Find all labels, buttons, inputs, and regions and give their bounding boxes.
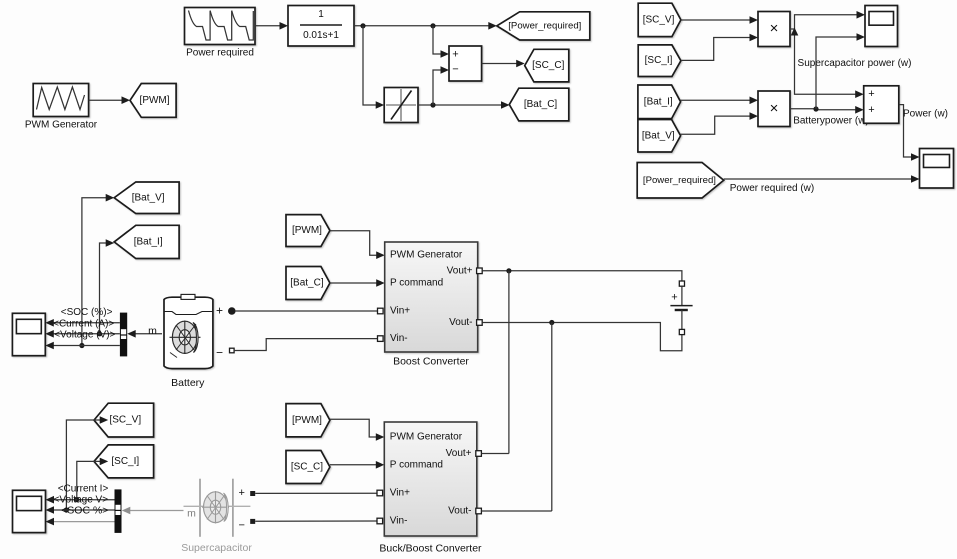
supercap minus terminal	[238, 519, 255, 532]
svg-text:Vout+: Vout+	[446, 448, 472, 459]
svg-text:+: +	[216, 304, 223, 318]
wire: saturation output to Bat_C goto	[418, 101, 510, 109]
wire: battery plus to Boost Vin+	[235, 310, 377, 312]
port: Buck/Boost Vout-	[476, 508, 482, 514]
svg-text:[SC_V]: [SC_V]	[643, 14, 675, 25]
svg-text:Vin-: Vin-	[390, 333, 408, 344]
from tag Bat_C (boost command)	[286, 267, 330, 300]
label: Power required (w)	[730, 183, 814, 194]
svg-text:Vin+: Vin+	[390, 306, 410, 317]
svg-text:[Bat_I]: [Bat_I]	[134, 236, 163, 247]
svg-text:Batterypower (w): Batterypower (w)	[793, 116, 869, 127]
svg-text:Vin-: Vin-	[390, 516, 408, 527]
svg-text:Buck/Boost Converter: Buck/Boost Converter	[379, 543, 482, 555]
goto tag Power_required	[497, 12, 590, 40]
svg-text:−: −	[216, 346, 223, 360]
svg-text:[PWM]: [PWM]	[140, 95, 170, 106]
wire: battery current signal up to Bat_I goto	[100, 239, 115, 334]
port: Buck/Boost Vin+	[377, 490, 383, 496]
svg-text:Boost Converter: Boost Converter	[393, 356, 469, 368]
scope block: battery measurements	[12, 313, 45, 355]
wire: junction to sum minus input	[433, 66, 449, 105]
svg-text:[PWM]: [PWM]	[292, 225, 322, 236]
svg-text:+: +	[868, 88, 874, 100]
wire: bus SOC signal to supercap scope	[46, 518, 115, 526]
from tag PWM (boost)	[286, 215, 330, 247]
wire: Bat_I to product P2 input 1	[681, 97, 758, 105]
svg-text:<SOC (%)>: <SOC (%)>	[61, 307, 113, 318]
from tag SC_V	[638, 3, 681, 36]
wire: battery m output to bus selector	[127, 325, 162, 338]
goto tag SC_V (supercap measurements)	[94, 403, 154, 437]
wire: supercap current signal up to SC_I goto	[77, 458, 108, 500]
signal source block: Power required profile	[185, 8, 256, 45]
wire: SC_I to product P1 input 2	[681, 34, 758, 61]
wire: junction to sum plus input	[433, 26, 449, 58]
label: Supercapacitor	[181, 542, 252, 554]
wire: battery minus to Boost Vin-	[234, 339, 377, 351]
wire: bus Current signal to supercap scope	[46, 496, 115, 504]
node: junction Vout- bus	[549, 320, 554, 325]
label: PWM Generator	[25, 120, 98, 131]
wire: supercap voltage signal up to SC_V goto	[66, 416, 108, 510]
from tag Bat_I	[638, 85, 681, 119]
wire: bus Voltage signal to supercap scope	[46, 506, 115, 514]
wire: Boost Vout- to DC load minus	[482, 323, 682, 351]
svg-text:Supercapacitor: Supercapacitor	[181, 542, 252, 554]
svg-text:Vin+: Vin+	[390, 487, 410, 498]
svg-text:m: m	[148, 325, 157, 337]
label: Batterypower (w)	[793, 116, 869, 127]
bus selector bar (battery)	[120, 313, 127, 357]
node: junction on output wire above saturation	[360, 23, 365, 28]
svg-text:[Bat_V]: [Bat_V]	[132, 192, 165, 203]
label: Voltage V signal	[54, 495, 109, 506]
node: junction Vout+ bus	[506, 268, 511, 273]
wire: PWM Generator to PWM goto	[89, 96, 130, 104]
wire: supercap minus to Buck/Boost Vin-	[255, 520, 377, 522]
svg-text:+: +	[868, 104, 874, 116]
svg-text:[PWM]: [PWM]	[292, 415, 322, 426]
subsystem block: Buck/Boost Converter	[384, 422, 477, 536]
svg-text:0.01s+1: 0.01s+1	[303, 30, 339, 41]
svg-text:[Bat_V]: [Bat_V]	[642, 130, 675, 141]
label: Current (A) signal	[53, 318, 114, 329]
wire: vertical bus Vout- junction to Buck/Boost Vout-	[551, 323, 553, 512]
wire: Power_required to scope input 2	[724, 175, 920, 183]
wire: bus Current signal to scope	[45, 330, 120, 338]
from tag Bat_V	[638, 120, 681, 153]
wire: sum S2 output to scope Power	[899, 105, 920, 161]
node: junction on battery power wire	[813, 106, 818, 111]
svg-text:Power (w): Power (w)	[903, 109, 948, 120]
goto tag PWM	[130, 84, 176, 118]
label: supercap m port	[187, 508, 196, 520]
svg-text:[Bat_I]: [Bat_I]	[644, 96, 673, 107]
port: Boost Vin-	[378, 336, 384, 342]
battery plus terminal node	[216, 304, 236, 318]
goto tag SC_I (supercap measurements)	[94, 445, 154, 478]
label: Battery	[171, 377, 205, 389]
node: junction on output wire above sum	[430, 23, 435, 28]
svg-text:PWM Generator: PWM Generator	[390, 432, 463, 443]
wire: PWM to Boost PWM Generator input	[330, 231, 385, 259]
wire: transfer function output to Power_required goto	[354, 22, 497, 30]
port: DC source plus terminal	[679, 281, 684, 286]
svg-text:×: ×	[770, 20, 779, 37]
svg-text:<Current (A)>: <Current (A)>	[53, 318, 114, 329]
svg-text:<SOC %>: <SOC %>	[61, 504, 108, 516]
scope block: Supercapacitor power	[865, 6, 898, 47]
label: SOC (%) signal	[61, 307, 113, 318]
signal source block: PWM Generator (triangle wave)	[33, 84, 88, 117]
wire: Buck/Boost Vout+ to DC bus	[481, 453, 509, 455]
svg-text:1: 1	[318, 9, 324, 20]
supercap plus terminal	[238, 487, 255, 499]
wire: SC_V to product P1 input 1	[681, 16, 758, 24]
svg-text:Power required (w): Power required (w)	[730, 183, 814, 194]
svg-text:Power required: Power required	[186, 48, 254, 59]
svg-text:[SC_I]: [SC_I]	[111, 456, 139, 467]
svg-text:Vout-: Vout-	[449, 317, 472, 328]
port: Buck/Boost Vout+	[476, 451, 482, 457]
DC voltage source element	[670, 286, 692, 329]
wire: supercap plus to Buck/Boost Vin+	[255, 492, 377, 494]
scope block: Power	[920, 149, 954, 189]
wire: Bat_V to product P2 input 2	[681, 112, 758, 134]
port: Boost Vout-	[477, 320, 483, 326]
port: Buck/Boost Vin-	[377, 518, 383, 524]
port: Boost Vout+	[477, 268, 483, 274]
wire: battery voltage signal up to Bat_V goto	[82, 194, 114, 346]
battery minus terminal	[216, 346, 234, 360]
svg-text:PWM Generator: PWM Generator	[390, 250, 463, 261]
svg-text:×: ×	[770, 100, 779, 117]
svg-text:PWM Generator: PWM Generator	[25, 120, 98, 131]
wire: sum output to SC_C goto	[482, 60, 525, 68]
svg-text:[Power_required]: [Power_required]	[643, 175, 716, 186]
wire: Bat_C to Boost P command input	[330, 279, 385, 287]
svg-text:[SC_V]: [SC_V]	[109, 415, 141, 426]
wire: SC_C to Buck/Boost P command input	[330, 461, 384, 469]
port: DC source minus terminal	[679, 329, 684, 334]
svg-text:<Voltage (V)>: <Voltage (V)>	[54, 330, 115, 341]
label: Voltage (V) signal	[54, 330, 115, 341]
from tag SC_I	[638, 45, 681, 77]
transfer function block: 1/(0.01s+1)	[288, 6, 354, 47]
from tag Power_required	[637, 163, 724, 199]
from tag PWM (buck/boost)	[286, 404, 330, 437]
svg-text:−: −	[452, 64, 458, 76]
goto tag Bat_I (battery measurements)	[114, 225, 179, 258]
product block P1 (multiply)	[758, 12, 790, 47]
label: Current I signal	[58, 484, 109, 495]
node: junction on supercap current wire	[74, 497, 79, 502]
saturation block	[384, 88, 418, 123]
svg-text:+: +	[671, 292, 677, 304]
svg-text:Vout-: Vout-	[448, 506, 471, 517]
node: junction on saturation output	[430, 102, 435, 107]
goto tag Bat_V (battery measurements)	[114, 182, 179, 214]
svg-text:m: m	[187, 508, 196, 520]
wire: junction up to scope input 2	[816, 33, 865, 109]
battery block icon	[164, 294, 213, 368]
label: Power required	[186, 48, 254, 59]
svg-text:[Bat_C]: [Bat_C]	[524, 99, 558, 110]
svg-text:−: −	[238, 520, 244, 532]
wire: Boost Vout+ to DC load plus	[482, 271, 682, 281]
svg-text:<Current I>: <Current I>	[58, 484, 109, 495]
svg-text:+: +	[238, 487, 244, 499]
subsystem block: Boost Converter	[385, 242, 478, 352]
bus selector bar (supercap)	[115, 489, 122, 533]
from tag SC_C (buck/boost command)	[286, 451, 330, 484]
svg-text:P command: P command	[390, 278, 443, 289]
node: junction on supercap voltage wire	[64, 507, 69, 512]
label: Buck/Boost Converter	[379, 543, 482, 555]
wire: PWM to Buck/Boost PWM Generator input	[330, 419, 384, 441]
label: Supercapacitor power (w)	[798, 58, 912, 69]
svg-text:[SC_C]: [SC_C]	[532, 60, 564, 71]
svg-text:P command: P command	[390, 459, 443, 470]
svg-text:+: +	[452, 49, 458, 61]
svg-text:[Bat_C]: [Bat_C]	[290, 278, 324, 289]
svg-text:Battery: Battery	[171, 377, 205, 389]
supercapacitor block icon	[184, 479, 251, 537]
wire: P1 output branch to scope and sum (vertical bus)	[790, 11, 865, 98]
svg-text:Supercapacitor power (w): Supercapacitor power (w)	[798, 58, 912, 69]
label: Power (w)	[903, 109, 948, 120]
wire: bus Voltage signal to scope	[45, 342, 120, 350]
wire: vertical bus Vout+ junction to Buck/Boost Vout+	[508, 271, 510, 454]
node: junction on voltage wire	[79, 343, 84, 348]
wire: source to transfer function	[255, 22, 288, 30]
wire: bus SOC signal to scope	[45, 319, 120, 327]
label: Boost Converter	[393, 356, 469, 368]
product block P2 (multiply)	[758, 91, 790, 127]
sum block S2 (+ +)	[864, 86, 899, 124]
goto tag Bat_C	[509, 88, 569, 121]
svg-text:[Power_required]: [Power_required]	[508, 20, 581, 31]
svg-text:[SC_I]: [SC_I]	[645, 55, 673, 66]
svg-text:Vout+: Vout+	[447, 265, 473, 276]
scope block: supercap measurements	[13, 490, 46, 532]
label: SOC % signal	[61, 504, 108, 516]
wire: Buck/Boost Vout- to DC bus	[481, 510, 551, 512]
port: Boost Vin+	[378, 308, 384, 314]
node: junction on current wire	[97, 331, 102, 336]
wire: junction down to saturation input	[363, 26, 384, 109]
wire: P2 output to sum S2 input 2	[790, 106, 864, 114]
svg-text:[SC_C]: [SC_C]	[291, 462, 323, 473]
wire: supercap m output to bus selector (grey)	[122, 507, 184, 515]
goto tag SC_C	[525, 49, 569, 82]
sum block S1	[449, 46, 482, 81]
